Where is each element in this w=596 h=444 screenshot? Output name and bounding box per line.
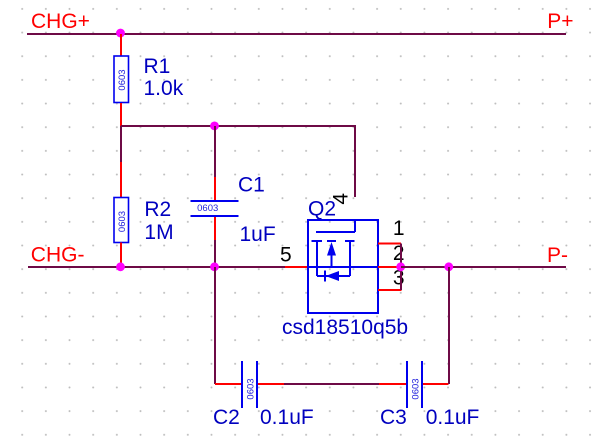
capacitor C2 <box>242 361 257 408</box>
svg-text:0603: 0603 <box>117 69 128 90</box>
svg-text:csd18510q5b: csd18510q5b <box>282 316 408 339</box>
svg-text:1: 1 <box>393 217 405 240</box>
wire R2 bottom pin <box>120 243 122 268</box>
svg-text:2: 2 <box>393 242 405 265</box>
junction CHG- rail at C3 drop <box>444 262 453 271</box>
wire drop CHG- to bottom rail right <box>448 267 450 384</box>
wire mid net from R1/R2 to Q2 gate <box>121 126 355 197</box>
svg-text:P-: P- <box>547 244 568 267</box>
wire Q2 pin2 lead <box>378 266 401 268</box>
svg-text:1M: 1M <box>144 221 173 244</box>
capacitor C1 <box>191 201 239 216</box>
resistor R2 <box>114 198 129 243</box>
wire C1 bottom lead <box>214 217 216 240</box>
svg-text:0603: 0603 <box>245 378 256 399</box>
wire Q2 pin3 lead <box>378 289 402 291</box>
svg-text:0.1uF: 0.1uF <box>426 406 480 429</box>
svg-text:C2: C2 <box>213 406 240 429</box>
svg-text:1.0k: 1.0k <box>144 77 184 100</box>
wire Q2 pin5 lead <box>285 266 308 268</box>
svg-text:CHG+: CHG+ <box>31 10 90 33</box>
junction CHG- rail at R2 <box>116 262 125 271</box>
svg-text:5: 5 <box>280 244 292 267</box>
wire C3 right lead <box>423 383 449 385</box>
svg-text:0.1uF: 0.1uF <box>260 406 314 429</box>
junction top rail at R1 <box>116 29 125 38</box>
svg-text:1uF: 1uF <box>240 223 276 246</box>
wire C1 top lead <box>214 126 216 177</box>
junction mid net at C1 <box>210 122 219 131</box>
resistor R1 <box>114 56 129 103</box>
svg-text:P+: P+ <box>547 10 573 33</box>
svg-text:C3: C3 <box>380 406 407 429</box>
svg-text:C1: C1 <box>238 174 265 197</box>
svg-text:4: 4 <box>329 193 352 205</box>
wire Q2 pin3 bracket <box>400 244 402 291</box>
svg-text:R2: R2 <box>144 198 171 221</box>
svg-text:0603: 0603 <box>410 378 421 399</box>
svg-text:R1: R1 <box>144 55 171 78</box>
wire C2 right lead <box>258 383 284 385</box>
svg-text:0603: 0603 <box>197 203 218 214</box>
wire C2 left lead <box>215 383 241 385</box>
wire CHG- rail right segment <box>401 266 566 268</box>
wire top rail CHG+ to P+ <box>27 33 566 35</box>
junction CHG- rail at C1 <box>210 262 219 271</box>
transistor Q2 csd18510q5b <box>308 220 378 313</box>
wire R1 bottom pin <box>120 103 122 126</box>
wire C3 left lead <box>379 383 406 385</box>
wire drop CHG- to bottom rail left <box>214 267 216 384</box>
junction CHG- rail at Q2 output <box>396 262 405 271</box>
svg-text:0603: 0603 <box>117 211 128 232</box>
svg-text:CHG-: CHG- <box>31 243 85 266</box>
capacitor C3 <box>407 361 422 408</box>
wire bottom rail middle segment <box>284 383 379 385</box>
wire mid net drop to R2 <box>120 126 122 162</box>
wire CHG- rail left segment <box>28 266 285 268</box>
wire Q2 pin1 lead <box>378 243 401 245</box>
wire R2 top pin <box>120 162 122 198</box>
wire node between R1 top pin and rail <box>120 34 122 56</box>
